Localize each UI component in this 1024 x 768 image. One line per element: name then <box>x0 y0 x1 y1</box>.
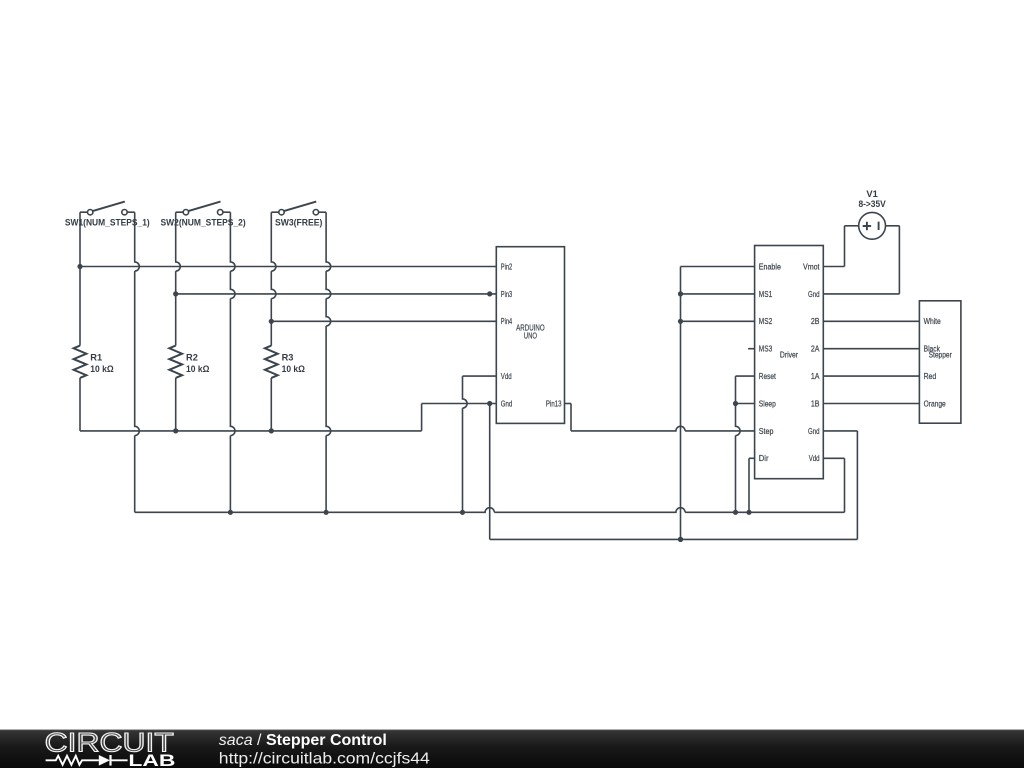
svg-text:SW1(NUM_STEPS_1): SW1(NUM_STEPS_1) <box>65 218 150 228</box>
svg-text:10 kΩ: 10 kΩ <box>90 364 114 374</box>
svg-text:10 kΩ: 10 kΩ <box>186 364 210 374</box>
svg-text:Vmot: Vmot <box>803 262 820 271</box>
svg-text:Vdd: Vdd <box>809 454 820 463</box>
svg-text:MS1: MS1 <box>759 290 773 299</box>
svg-text:10 kΩ: 10 kΩ <box>282 364 306 374</box>
svg-text:UNO: UNO <box>524 332 537 341</box>
svg-text:Enable: Enable <box>759 262 782 271</box>
svg-text:Gnd: Gnd <box>808 290 820 299</box>
svg-text:MS2: MS2 <box>759 317 773 326</box>
svg-text:R2: R2 <box>186 352 198 362</box>
svg-text:Dir: Dir <box>759 454 769 463</box>
svg-text:Pin4: Pin4 <box>501 317 513 326</box>
svg-text:2B: 2B <box>811 317 820 326</box>
svg-text:Driver: Driver <box>780 350 798 359</box>
svg-text:SW3(FREE): SW3(FREE) <box>275 218 323 228</box>
svg-text:Pin3: Pin3 <box>501 290 513 299</box>
svg-text:http://circuitlab.com/ccjfs44: http://circuitlab.com/ccjfs44 <box>219 751 430 768</box>
svg-text:Pin13: Pin13 <box>546 399 562 408</box>
svg-text:White: White <box>924 317 942 326</box>
svg-text:Sleep: Sleep <box>759 399 776 408</box>
svg-text:V1: V1 <box>866 189 877 199</box>
svg-text:R3: R3 <box>282 352 294 362</box>
svg-text:Reset: Reset <box>759 372 777 381</box>
svg-text:Orange: Orange <box>924 399 947 408</box>
svg-text:LAB: LAB <box>128 752 175 768</box>
svg-text:Pin2: Pin2 <box>501 262 513 271</box>
svg-text:Stepper: Stepper <box>929 351 952 360</box>
svg-text:1B: 1B <box>811 399 820 408</box>
svg-text:saca / Stepper Control: saca / Stepper Control <box>219 732 387 749</box>
svg-text:1A: 1A <box>811 372 820 381</box>
svg-text:MS3: MS3 <box>759 345 773 354</box>
svg-text:Gnd: Gnd <box>501 399 513 408</box>
svg-text:Step: Step <box>759 427 774 436</box>
svg-text:R1: R1 <box>90 352 102 362</box>
svg-text:Vdd: Vdd <box>501 372 512 381</box>
svg-text:2A: 2A <box>811 345 820 354</box>
svg-text:SW2(NUM_STEPS_2): SW2(NUM_STEPS_2) <box>161 218 246 228</box>
svg-text:Red: Red <box>924 372 937 381</box>
svg-text:8->35V: 8->35V <box>858 199 886 209</box>
svg-text:Gnd: Gnd <box>808 427 820 436</box>
